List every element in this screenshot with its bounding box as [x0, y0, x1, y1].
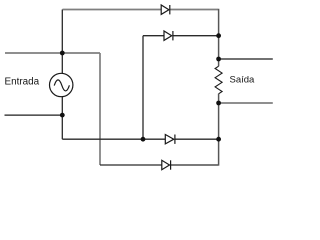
- node junction at (62,115): [60, 113, 65, 118]
- resistor R1 zigzag: [215, 66, 222, 94]
- node junction bus at (218.6,139.2): [216, 137, 221, 142]
- AC source V1 circle: [50, 73, 73, 96]
- diode D1 (top row): [161, 5, 170, 14]
- node junction at (143,139): [141, 137, 146, 142]
- wire: row 3 horizontal y=139.2: [62, 138, 218, 140]
- wire: vertical x=143 from row 2 to row 3: [142, 36, 144, 140]
- AC source sine symbol: [54, 80, 69, 91]
- wire: lower output line y=103 (gray): [219, 102, 273, 104]
- node junction bus at (218.6,103): [216, 101, 221, 106]
- wire: vertical x=62.5 from row1 down to source top, through node: [61, 10, 63, 74]
- wire: left upper input stub y=53 (gray): [5, 52, 100, 54]
- wire: vertical x=100 from upper stub down to row 4 (gray): [99, 53, 101, 165]
- wire: row 2 horizontal y=35.7: [143, 35, 218, 37]
- wire: top horizontal row 1 (gray): [63, 9, 219, 11]
- node junction at (62,53): [60, 51, 65, 56]
- wire: right vertical bus x=218.6: [218, 9, 220, 166]
- svg-text:Saída: Saída: [230, 75, 256, 86]
- node junction bus at (218.6,59): [216, 57, 221, 62]
- svg-text:Entrada: Entrada: [5, 77, 40, 88]
- wire: upper output line y=59: [219, 58, 273, 60]
- wire: left lower input stub y=115: [5, 114, 63, 116]
- diode D4 (row 4): [162, 160, 171, 169]
- wire: row 4 horizontal y=165: [100, 164, 219, 166]
- diode D3 (row 3): [165, 135, 175, 144]
- diode D2 (row 2): [164, 31, 173, 40]
- node junction bus at (218.6,35.7): [216, 33, 221, 38]
- wire: vertical below source to row 3: [61, 97, 63, 140]
